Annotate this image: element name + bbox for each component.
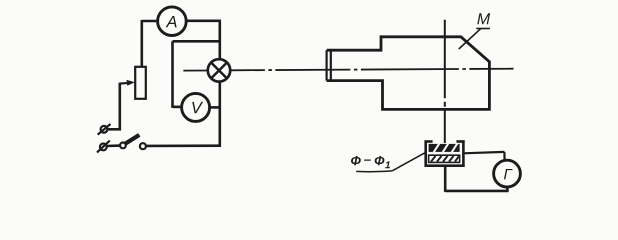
wire wiper to upper terminal <box>107 128 121 131</box>
wire optical axis left stub <box>183 70 207 72</box>
photocell frame left bracket <box>425 140 433 166</box>
label F-F1 leader line <box>393 153 425 171</box>
wire voltmeter branch top <box>173 40 220 43</box>
wire photocell right lead <box>463 152 504 153</box>
wire galvanometer top riser <box>503 152 505 162</box>
wire galvanometer bottom riser <box>506 186 509 192</box>
photocell frame right bracket <box>456 140 464 166</box>
wire wiper riser <box>119 83 122 131</box>
switch S pivot <box>120 143 126 149</box>
photocell top electrode (dark hatched bar) <box>429 143 460 152</box>
microscope body M outline <box>327 37 490 110</box>
terminal upper input <box>98 124 111 135</box>
label F-F1 text <box>351 156 361 165</box>
wire main vertical above lamp <box>219 21 222 60</box>
wire lower terminal to switch <box>107 144 120 147</box>
resistor R (rheostat body) <box>135 67 146 99</box>
photocell bottom electrode (hatched bar) <box>429 155 460 162</box>
lamp HL <box>208 59 230 81</box>
galvanometer G <box>494 160 521 187</box>
photocell frame bottom edge <box>425 164 465 167</box>
label F-F1 underline <box>356 171 392 172</box>
wire ammeter left lead <box>142 20 158 23</box>
optical axis centerline (dash-dot) <box>230 69 513 71</box>
ammeter A <box>158 7 187 36</box>
label M text <box>477 13 490 24</box>
wire photocell bottom drop <box>444 166 447 192</box>
wire ammeter right lead <box>186 19 221 22</box>
switch open contact <box>140 143 146 149</box>
wire voltmeter left lead <box>173 106 183 109</box>
wire left riser to rheostat <box>141 20 144 67</box>
label M underline <box>476 28 490 30</box>
voltmeter V <box>182 93 210 121</box>
wire voltmeter left riser <box>171 41 174 108</box>
rheostat wiper arrow <box>120 80 135 86</box>
vertical centerline (dash-dot) <box>444 20 446 143</box>
wire bottom run to galvanometer <box>445 190 508 193</box>
terminal lower input <box>97 141 110 153</box>
wire main vertical below lamp <box>219 81 222 147</box>
wire voltmeter right lead <box>210 106 221 109</box>
switch blade <box>125 135 139 144</box>
wire bottom rail <box>146 144 221 147</box>
label M leader line <box>459 29 481 49</box>
